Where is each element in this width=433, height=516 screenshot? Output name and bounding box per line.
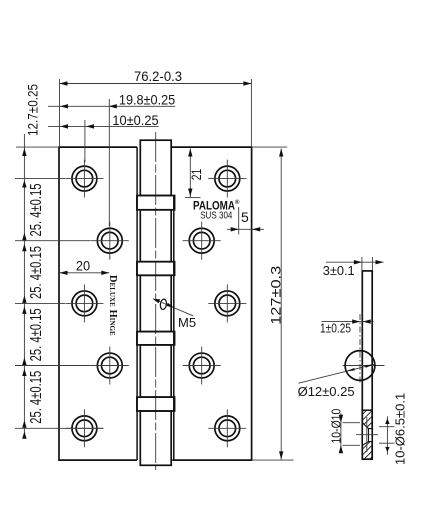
screw hole L5	[65, 409, 103, 447]
barrel pin centerline side view	[359, 314, 361, 385]
knuckle K1	[140, 140, 171, 195]
svg-text:5: 5	[241, 209, 249, 225]
svg-text:Ø12±0.25: Ø12±0.25	[298, 384, 355, 399]
dimension 127±0.3	[252, 147, 294, 460]
screw hole R4	[183, 347, 221, 385]
dimension 25.4±0.15 (gap 2)	[22, 246, 45, 314]
svg-text:Deluxe Hinge: Deluxe Hinge	[107, 275, 118, 336]
svg-text:25. 4±0.15: 25. 4±0.15	[28, 184, 45, 237]
svg-text:SUS 304: SUS 304	[200, 210, 232, 222]
side view bar outline	[362, 271, 372, 459]
svg-text:®: ®	[235, 199, 240, 206]
dimension 5	[227, 207, 264, 235]
dimension 21	[185, 149, 204, 198]
dimension 1±0.25	[320, 319, 374, 335]
screw hole L3	[65, 284, 103, 322]
dimension 12.7±0.25	[16, 84, 59, 437]
svg-text:M5: M5	[178, 315, 196, 330]
hinge left leaf outline	[59, 147, 137, 460]
knuckle K2	[140, 210, 171, 262]
svg-text:10-Ø6.5±0.1: 10-Ø6.5±0.1	[393, 393, 408, 465]
dimension chain 25.4±0.15 row extension lines	[15, 179, 103, 429]
hatched leaf section	[356, 405, 378, 467]
hinge right leaf outline	[171, 147, 252, 460]
svg-text:12.7±0.25: 12.7±0.25	[24, 84, 40, 136]
label M5 pin hole	[153, 299, 196, 330]
barrel centerline	[155, 132, 157, 470]
screw hole L4	[91, 347, 129, 385]
svg-text:1±0.25: 1±0.25	[320, 321, 351, 336]
bearing B2	[137, 262, 175, 276]
right leaf inner edge wire	[173, 196, 175, 461]
svg-text:10±0.25: 10±0.25	[112, 112, 158, 128]
screw hole L2	[91, 222, 129, 260]
svg-text:25. 4±0.15: 25. 4±0.15	[28, 308, 45, 361]
logo PALOMA	[193, 199, 240, 213]
knuckle K3	[140, 275, 171, 331]
svg-text:25. 4±0.15: 25. 4±0.15	[28, 246, 45, 299]
screw hole R3	[208, 284, 246, 322]
svg-text:76.2-0.3: 76.2-0.3	[134, 68, 182, 84]
dimension 76.2-0.3	[60, 68, 252, 146]
knuckle K5	[140, 411, 171, 465]
bearing B1	[137, 196, 175, 210]
bearing B3	[137, 332, 175, 345]
dimension Ø12±0.25	[298, 364, 376, 399]
screw hole R1	[208, 160, 246, 198]
screw hole L1	[65, 160, 103, 198]
dimension 3±0.1	[323, 257, 384, 278]
dimension 25.4±0.15 (gap 4)	[22, 371, 45, 439]
screw hole R2	[183, 222, 221, 260]
dimension 10-Ø6.5±0.1	[379, 393, 408, 465]
svg-text:20: 20	[76, 258, 90, 274]
bearing B4	[137, 397, 175, 411]
dimension 10-Ø10	[328, 409, 360, 454]
left leaf inner edge wire	[136, 147, 138, 460]
dimension 25.4±0.15 (gap 1)	[22, 184, 45, 252]
svg-text:25. 4±0.15: 25. 4±0.15	[28, 371, 45, 424]
dimension 25.4±0.15 (gap 3)	[22, 308, 45, 376]
dimension 19.8±0.25	[48, 92, 175, 227]
svg-text:3±0.1: 3±0.1	[323, 263, 355, 278]
screw hole R5	[208, 409, 246, 447]
knuckle K4	[140, 345, 171, 397]
dimension 20	[60, 258, 110, 275]
barrel circle side view	[343, 351, 385, 381]
dimension 10±0.25	[48, 112, 159, 162]
svg-text:19.8±0.25: 19.8±0.25	[119, 92, 175, 108]
